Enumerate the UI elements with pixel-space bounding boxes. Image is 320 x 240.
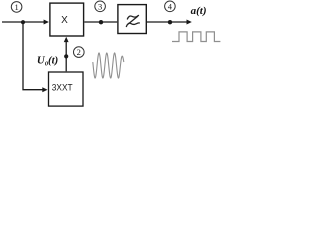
svg-text:3: 3: [98, 1, 102, 11]
svg-text:3XXT: 3XXT: [52, 83, 73, 93]
svg-text:a(t): a(t): [191, 5, 207, 17]
svg-text:2: 2: [77, 47, 81, 57]
svg-text:X: X: [61, 15, 68, 26]
svg-text:1: 1: [14, 2, 18, 12]
svg-text:U0(t): U0(t): [37, 55, 58, 68]
svg-text:4: 4: [168, 1, 173, 11]
